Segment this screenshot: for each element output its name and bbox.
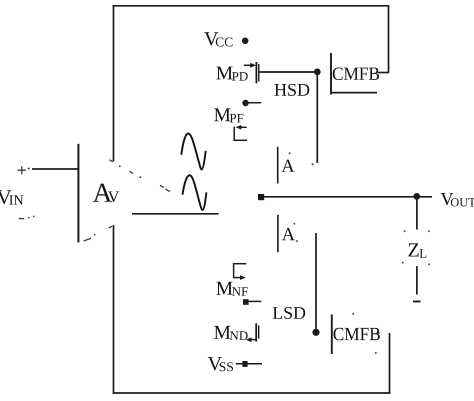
- transistor MNF symbol: [234, 263, 247, 280]
- transistor MND symbol: [246, 323, 259, 342]
- block CMFB top bottom line: [331, 92, 377, 94]
- wire amp output baseline: [132, 213, 219, 215]
- op-amp AV bottom edge dashed: [84, 226, 112, 241]
- wire top-right vertical from rail to CMFB: [388, 5, 390, 73]
- node minus specks: [28, 216, 35, 219]
- wire lower A device to junction: [315, 233, 317, 333]
- label AV amplifier: [93, 184, 119, 203]
- label VOUT: [441, 193, 474, 207]
- node VOUT junction dot: [413, 193, 420, 200]
- wire junction down to upper A device: [316, 72, 318, 163]
- wire CMFB top right stub: [378, 72, 389, 74]
- block CMFB top left bar: [330, 53, 332, 95]
- label VIN: [0, 190, 23, 204]
- power VCC dot: [242, 38, 249, 45]
- block CMFB bottom left bar: [331, 315, 333, 355]
- label MPF: [214, 108, 243, 122]
- power VSS lead and square dot: [236, 361, 262, 367]
- wire top rail: [113, 5, 390, 7]
- wire amp bottom to VSS rail: [113, 225, 115, 394]
- node CMFB bottom right speck: [377, 332, 379, 334]
- signal sine wave 2: [183, 175, 207, 210]
- transistor lower A gate bar: [277, 215, 279, 252]
- label A lower: [282, 228, 295, 240]
- signal sine wave 1: [181, 133, 205, 169]
- label LSD: [273, 307, 305, 319]
- label HSD: [275, 84, 310, 96]
- label VSS: [208, 357, 233, 371]
- wire amp input: [32, 168, 78, 170]
- node output junction square dot: [258, 194, 264, 200]
- transistor upper A gate bar: [277, 147, 279, 184]
- node junction dot MPD drain: [314, 69, 321, 76]
- label MND: [214, 326, 248, 340]
- node scan specks around ZL: [402, 230, 431, 265]
- node MNF gate dot and lead: [243, 299, 261, 305]
- load ZL bottom lead: [416, 266, 418, 295]
- load ZL top lead: [416, 198, 418, 230]
- wire output node line: [261, 196, 432, 198]
- label ZL: [409, 243, 427, 257]
- transistor MPF symbol: [234, 125, 248, 141]
- label MPD: [216, 67, 247, 81]
- node MPF gate dot and lead: [242, 100, 261, 106]
- label A upper: [282, 160, 295, 172]
- wire top-left vertical from rail to amp: [113, 5, 115, 161]
- load ZL bottom tick: [413, 301, 421, 303]
- transistor MPD symbol: [244, 62, 259, 83]
- op-amp AV top edge dashed: [110, 160, 170, 192]
- node scan specks misc: [289, 152, 377, 354]
- label MNF: [216, 282, 247, 296]
- label minus input: [19, 218, 24, 220]
- label VCC: [204, 32, 232, 46]
- wire MPD drain to junction: [259, 71, 318, 73]
- node lower junction dot: [312, 329, 319, 336]
- wire bottom-right vertical CMFB to rail: [389, 333, 391, 394]
- label plus input: [18, 166, 26, 174]
- label CMFB bottom: [334, 328, 380, 341]
- label CMFB top: [333, 68, 379, 81]
- wire bottom rail: [113, 392, 391, 394]
- op-amp AV left edge: [77, 144, 79, 243]
- node speck near plus: [28, 168, 30, 170]
